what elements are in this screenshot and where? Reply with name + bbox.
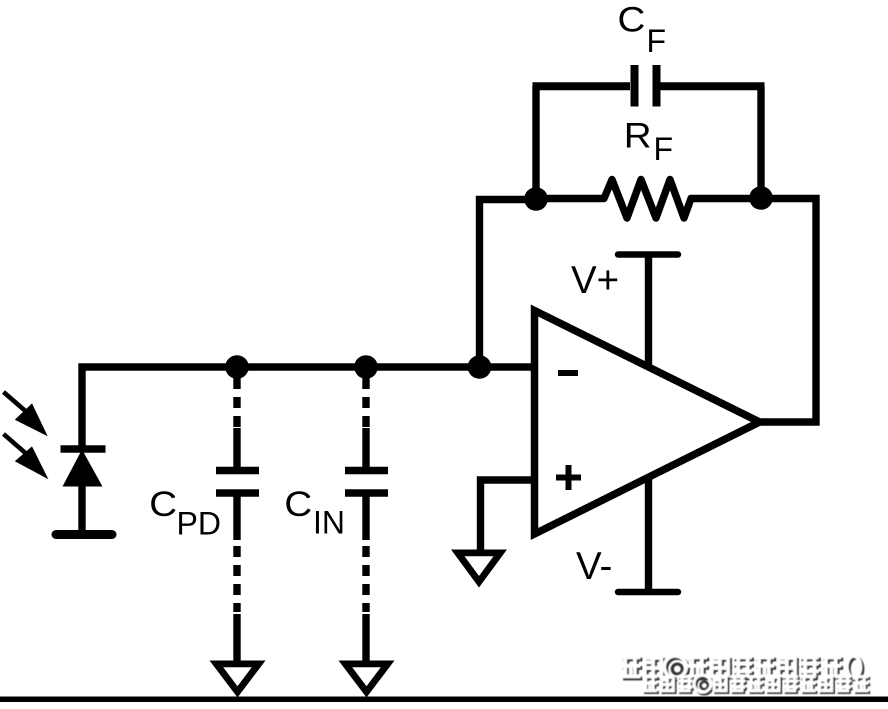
wire output and feedback right connection bbox=[753, 199, 816, 423]
wire feedback left vertical bbox=[532, 86, 539, 199]
label CPD bbox=[149, 485, 221, 542]
svg-text:PD: PD bbox=[177, 506, 221, 542]
op-amp plus sign bbox=[556, 465, 581, 490]
svg-text:C: C bbox=[618, 0, 646, 39]
op-amp minus sign bbox=[558, 370, 578, 376]
wire input net: photodiode top corner to inverting input bbox=[82, 367, 540, 449]
ground arrow (CIN) bbox=[339, 661, 395, 698]
light arrow 2 bbox=[4, 434, 49, 479]
ground arrow (CPD) bbox=[210, 661, 266, 698]
node feedback right dot bbox=[749, 186, 773, 210]
label RF bbox=[624, 116, 673, 167]
capacitor CPD bbox=[216, 378, 259, 662]
svg-text:F: F bbox=[647, 23, 667, 59]
wire inverting node up to feedback bbox=[480, 200, 537, 368]
ground plane line bbox=[0, 697, 888, 703]
photodiode D1 bbox=[56, 449, 112, 535]
wire feedback top right bbox=[661, 82, 765, 90]
svg-text:C: C bbox=[149, 485, 177, 524]
svg-text:C: C bbox=[284, 485, 312, 524]
watermark line2 bbox=[644, 677, 659, 694]
watermark line1 bbox=[623, 658, 643, 680]
node inverting junction dot bbox=[468, 355, 492, 379]
resistor RF bbox=[536, 180, 761, 219]
op-amp U1 bbox=[535, 311, 760, 535]
svg-text:IN: IN bbox=[313, 505, 345, 541]
label CIN bbox=[284, 485, 345, 541]
svg-text:V+: V+ bbox=[571, 259, 619, 302]
capacitor CIN bbox=[345, 378, 388, 662]
wire non-inverting input to ground bbox=[481, 480, 541, 552]
V- supply rail bbox=[618, 476, 678, 592]
V+ supply rail bbox=[618, 255, 678, 369]
svg-text:V-: V- bbox=[576, 545, 612, 588]
label CF bbox=[618, 0, 667, 59]
svg-text:R: R bbox=[624, 116, 652, 155]
ground (non-inverting input) bbox=[451, 550, 507, 588]
wire feedback top left bbox=[533, 82, 631, 90]
light arrow 1 bbox=[4, 392, 48, 436]
capacitor CF bbox=[635, 65, 657, 107]
node CPD junction dot bbox=[225, 355, 249, 379]
svg-text:F: F bbox=[654, 131, 674, 167]
node CIN junction dot bbox=[354, 355, 378, 379]
wire feedback right vertical bbox=[757, 86, 764, 198]
node feedback left dot bbox=[524, 187, 548, 211]
